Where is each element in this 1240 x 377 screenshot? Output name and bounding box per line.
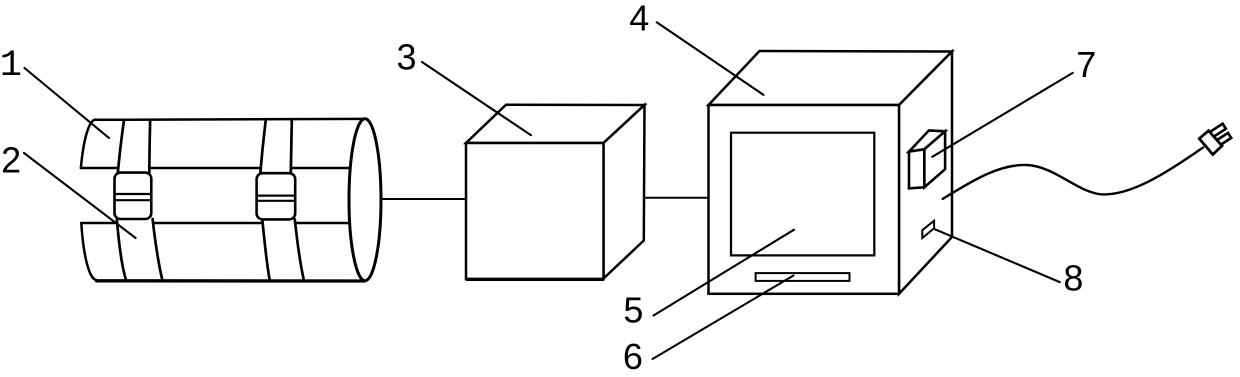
svg-text:7: 7	[1076, 44, 1096, 85]
svg-text:8: 8	[1063, 257, 1083, 298]
power plug upper prong	[1210, 124, 1226, 137]
power cable	[943, 148, 1203, 199]
svg-text:6: 6	[623, 336, 643, 377]
cylinder left bottom arc	[81, 223, 96, 280]
svg-text:2: 2	[1, 139, 21, 180]
wire box3-to-box4	[622, 197, 709, 199]
wire cylinder-to-box	[381, 198, 466, 200]
buckle 1	[115, 173, 152, 219]
box 3 bottom edge	[467, 278, 603, 281]
strap 2 lower part	[262, 219, 304, 280]
strap 1 upper part	[118, 120, 150, 173]
svg-text:4: 4	[629, 0, 649, 38]
leader line 2	[24, 153, 136, 238]
cylinder lower seam line	[81, 222, 350, 225]
cylinder right end ellipse	[349, 119, 381, 281]
connector block 7 left face	[909, 149, 924, 188]
box 4 front face	[709, 105, 900, 294]
cylinder top outline	[97, 118, 365, 121]
svg-text:5: 5	[623, 290, 643, 331]
socket slot 8	[922, 221, 934, 238]
leader line 7	[932, 73, 1072, 157]
box 4 right face	[899, 52, 952, 294]
leader line 5	[654, 230, 795, 316]
power plug body	[1199, 131, 1222, 155]
leader line 3	[422, 62, 531, 135]
svg-text:3: 3	[396, 37, 416, 78]
strap 2 upper part	[260, 120, 292, 174]
leader line 1	[25, 68, 110, 138]
power plug lower prong	[1215, 133, 1231, 146]
cylinder bottom outline	[97, 279, 365, 283]
strap 1 lower part	[117, 219, 163, 281]
buckle 2 bars	[257, 196, 296, 201]
buckle 1 bars	[115, 194, 152, 200]
svg-text:1: 1	[0, 45, 22, 87]
screen 5	[731, 133, 874, 256]
connector block 7 right face	[924, 131, 945, 187]
box 4 top face	[709, 51, 953, 105]
cylinder left top arc	[81, 120, 97, 168]
cylinder upper seam line	[81, 167, 350, 170]
box 3 right face	[604, 105, 645, 279]
leader line 6	[653, 276, 794, 360]
buckle 2	[257, 173, 296, 219]
box 3 top face	[466, 105, 645, 143]
leader line 4	[657, 22, 764, 95]
slot 6	[756, 273, 850, 281]
leader line 8	[935, 229, 1060, 282]
box 3 front face	[466, 143, 604, 279]
connector block 7 top face	[909, 130, 945, 151]
